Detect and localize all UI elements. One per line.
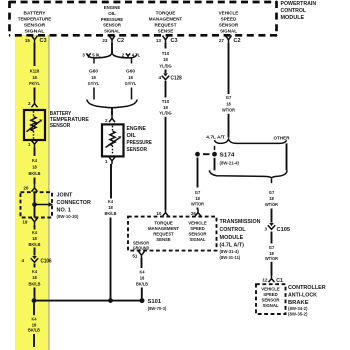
svg-text:C2: C2 — [234, 38, 241, 44]
svg-text:SENSOR: SENSOR — [103, 23, 121, 28]
svg-text:SENSOR: SENSOR — [24, 23, 46, 28]
svg-text:SENSE: SENSE — [158, 29, 174, 34]
svg-text:MANAGEMENT: MANAGEMENT — [148, 226, 179, 231]
svg-text:23: 23 — [102, 38, 108, 43]
svg-text:10: 10 — [156, 211, 162, 216]
svg-text:1: 1 — [105, 159, 108, 164]
svg-text:18: 18 — [108, 205, 113, 210]
svg-text:VEHICLE: VEHICLE — [219, 11, 239, 16]
svg-text:S101: S101 — [148, 299, 162, 305]
svg-text:18: 18 — [128, 75, 133, 80]
svg-text:18: 18 — [163, 105, 168, 110]
svg-text:BATTERY: BATTERY — [24, 11, 46, 16]
svg-text:18: 18 — [140, 275, 145, 280]
svg-text:SENSOR: SENSOR — [50, 123, 71, 129]
svg-text:18: 18 — [195, 196, 200, 201]
svg-text:REQUEST: REQUEST — [155, 23, 177, 28]
svg-text:ENGINE: ENGINE — [104, 5, 120, 10]
svg-text:51: 51 — [132, 253, 138, 258]
svg-text:SIGNAL: SIGNAL — [190, 237, 206, 242]
svg-text:NO. 1: NO. 1 — [57, 207, 72, 213]
svg-text:OTHER: OTHER — [274, 136, 291, 141]
svg-text:18: 18 — [32, 275, 37, 280]
svg-text:(8W-35-2): (8W-35-2) — [288, 312, 308, 317]
svg-text:27: 27 — [219, 38, 225, 43]
svg-text:C105: C105 — [277, 227, 291, 233]
svg-text:C128: C128 — [171, 75, 182, 81]
svg-text:GY/YL: GY/YL — [88, 81, 100, 86]
svg-text:S174: S174 — [220, 153, 236, 159]
svg-text:18: 18 — [32, 236, 37, 241]
svg-text:19: 19 — [22, 220, 28, 225]
svg-text:(8W-10-30): (8W-10-30) — [57, 214, 80, 219]
svg-text:BK/LB: BK/LB — [29, 281, 42, 286]
svg-text:C3: C3 — [40, 38, 47, 44]
svg-text:3: 3 — [264, 227, 267, 232]
svg-text:4.7L: 4.7L — [132, 52, 141, 57]
svg-text:SENSOR: SENSOR — [189, 231, 208, 236]
svg-text:C3: C3 — [171, 38, 178, 44]
svg-text:3: 3 — [82, 52, 85, 57]
svg-text:G7: G7 — [195, 190, 201, 195]
svg-text:PRESSURE: PRESSURE — [127, 140, 153, 146]
svg-text:SPEED: SPEED — [190, 226, 205, 231]
svg-text:G60: G60 — [126, 69, 135, 74]
svg-text:SENSOR: SENSOR — [219, 23, 239, 28]
svg-text:SPEED: SPEED — [263, 292, 278, 297]
svg-text:PK/YL: PK/YL — [29, 81, 40, 86]
svg-text:MODULE: MODULE — [220, 235, 244, 241]
svg-text:BRAKE: BRAKE — [288, 300, 309, 306]
svg-text:2: 2 — [105, 118, 108, 123]
svg-text:BK/LB: BK/LB — [28, 328, 41, 333]
svg-text:MODULE: MODULE — [281, 15, 305, 21]
svg-text:C2: C2 — [117, 38, 124, 44]
svg-text:26: 26 — [191, 211, 197, 216]
svg-text:T10: T10 — [162, 99, 170, 104]
svg-text:WT/OR: WT/OR — [265, 202, 279, 207]
svg-text:5.9L: 5.9L — [92, 52, 101, 57]
svg-text:SIGNAL: SIGNAL — [263, 303, 279, 308]
svg-text:13: 13 — [156, 38, 162, 43]
svg-text:GY/YL: GY/YL — [125, 81, 137, 86]
svg-text:BK/LB: BK/LB — [105, 211, 118, 216]
svg-text:SENSE: SENSE — [156, 237, 171, 242]
svg-text:(8W-70-3): (8W-70-3) — [148, 306, 167, 311]
svg-text:TRANSMISSION: TRANSMISSION — [220, 219, 261, 225]
svg-text:SENSOR: SENSOR — [262, 298, 281, 303]
svg-text:(8W-34-2): (8W-34-2) — [288, 306, 308, 311]
svg-text:K4: K4 — [140, 269, 145, 274]
svg-text:C1: C1 — [276, 278, 283, 284]
svg-text:WT/OR: WT/OR — [222, 108, 236, 113]
svg-text:YL/DG: YL/DG — [159, 110, 172, 115]
svg-text:G7: G7 — [269, 245, 275, 250]
svg-text:18: 18 — [226, 101, 231, 106]
svg-text:4.7L A/T: 4.7L A/T — [206, 135, 225, 140]
svg-text:CONNECTOR: CONNECTOR — [57, 200, 92, 206]
svg-text:SPEED: SPEED — [221, 17, 237, 22]
svg-text:TORQUE: TORQUE — [156, 11, 176, 16]
svg-text:YL/DG: YL/DG — [159, 63, 172, 68]
svg-text:K4: K4 — [32, 158, 37, 163]
svg-text:OIL: OIL — [127, 133, 137, 139]
svg-text:ANTI-LOCK: ANTI-LOCK — [288, 292, 317, 298]
svg-text:BK/LB: BK/LB — [29, 242, 42, 247]
svg-text:2: 2 — [28, 101, 31, 106]
svg-text:MANAGEMENT: MANAGEMENT — [149, 17, 183, 22]
svg-text:BK/LB: BK/LB — [136, 281, 149, 286]
svg-text:REQUEST: REQUEST — [153, 231, 174, 236]
svg-text:BK/LB: BK/LB — [29, 171, 42, 176]
svg-text:4: 4 — [158, 75, 161, 80]
svg-text:JOINT: JOINT — [57, 192, 74, 198]
svg-text:K4: K4 — [32, 269, 37, 274]
svg-text:12: 12 — [262, 278, 268, 283]
svg-text:18: 18 — [32, 75, 37, 80]
svg-text:SIGNAL: SIGNAL — [104, 29, 120, 34]
svg-text:(8W-21-4): (8W-21-4) — [220, 161, 240, 166]
svg-text:K4: K4 — [108, 199, 113, 204]
svg-text:SIGNAL: SIGNAL — [25, 29, 45, 34]
svg-text:(4.7L A/T): (4.7L A/T) — [220, 243, 245, 249]
svg-text:4: 4 — [21, 258, 24, 263]
svg-text:20: 20 — [23, 186, 29, 191]
svg-text:VEHICLE: VEHICLE — [188, 220, 207, 225]
svg-text:SIGNAL: SIGNAL — [220, 29, 237, 34]
svg-text:TORQUE: TORQUE — [154, 220, 173, 225]
svg-text:PRESSURE: PRESSURE — [101, 17, 123, 22]
svg-text:VEHICLE: VEHICLE — [261, 287, 280, 292]
svg-text:18: 18 — [269, 196, 274, 201]
svg-text:GROUND: GROUND — [133, 245, 150, 250]
svg-text:ENGINE: ENGINE — [127, 126, 147, 132]
svg-text:2: 2 — [122, 52, 125, 57]
svg-text:(8W-31-4): (8W-31-4) — [220, 249, 240, 254]
svg-text:TEMPERATURE: TEMPERATURE — [18, 17, 52, 22]
svg-text:1: 1 — [28, 142, 31, 147]
svg-text:OIL: OIL — [108, 11, 116, 16]
svg-text:18: 18 — [163, 57, 168, 62]
svg-text:18: 18 — [91, 75, 96, 80]
svg-text:G7: G7 — [269, 190, 275, 195]
svg-text:15: 15 — [25, 38, 31, 43]
svg-text:SENSOR: SENSOR — [127, 147, 148, 153]
svg-text:WT/OR: WT/OR — [265, 256, 279, 261]
svg-text:POWERTRAIN: POWERTRAIN — [281, 1, 317, 7]
svg-text:G60: G60 — [89, 69, 98, 74]
svg-text:K118: K118 — [30, 69, 40, 74]
svg-text:K4: K4 — [32, 317, 37, 322]
svg-text:CONTROLLER: CONTROLLER — [288, 285, 326, 291]
svg-text:WT/OR: WT/OR — [191, 202, 205, 207]
svg-text:(8W-31-11): (8W-31-11) — [220, 255, 241, 260]
svg-text:CONTROL: CONTROL — [281, 8, 307, 14]
svg-text:K4: K4 — [32, 230, 37, 235]
svg-text:G7: G7 — [226, 95, 232, 100]
svg-text:CONTROL: CONTROL — [220, 227, 247, 233]
svg-text:T10: T10 — [162, 51, 170, 56]
svg-text:18: 18 — [32, 165, 37, 170]
svg-text:C106: C106 — [41, 258, 52, 264]
